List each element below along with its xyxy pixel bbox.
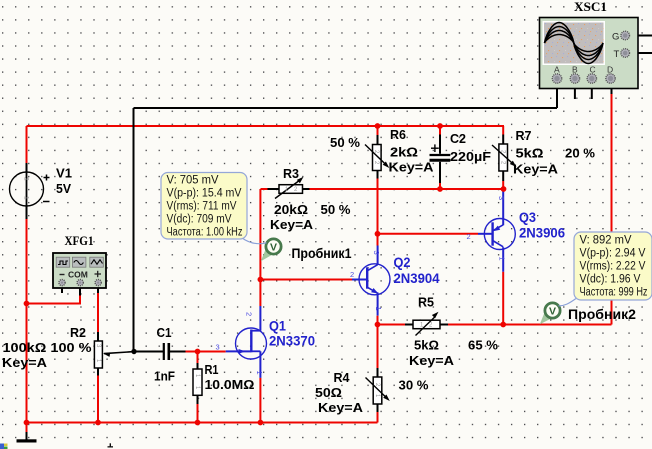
svg-text:V(rms): 2.22 V: V(rms): 2.22 V: [580, 261, 646, 273]
svg-text:R3: R3: [283, 166, 299, 181]
svg-text:V(p-p): 15.4 mV: V(p-p): 15.4 mV: [167, 188, 242, 200]
svg-text:Частота: 1.00 kHz: Частота: 1.00 kHz: [167, 227, 243, 239]
svg-text:V: 892 mV: V: 892 mV: [580, 235, 632, 247]
svg-text:1: 1: [255, 371, 264, 375]
svg-text:D: D: [607, 65, 613, 75]
svg-text:T: T: [614, 49, 620, 60]
svg-text:Key=A: Key=A: [318, 400, 364, 415]
svg-text:XSC1: XSC1: [574, 0, 607, 14]
svg-text:COM: COM: [68, 270, 88, 280]
svg-text:Key=A: Key=A: [2, 355, 48, 370]
svg-text:5kΩ: 5kΩ: [516, 146, 544, 161]
svg-text:V(dc): 1.96 V: V(dc): 1.96 V: [580, 274, 641, 286]
svg-text:3: 3: [216, 343, 220, 352]
svg-text:30 %: 30 %: [399, 378, 429, 393]
svg-text:R4: R4: [334, 370, 351, 385]
svg-text:2: 2: [467, 232, 471, 241]
svg-text:Q1: Q1: [269, 319, 286, 334]
svg-text:65 %: 65 %: [468, 338, 498, 353]
svg-text:Пробник1: Пробник1: [292, 246, 352, 261]
svg-text:Пробник2: Пробник2: [568, 307, 636, 322]
svg-text:3: 3: [372, 251, 381, 255]
svg-text:2: 2: [350, 270, 354, 279]
svg-text:R1: R1: [205, 362, 219, 377]
svg-text:2N3904: 2N3904: [394, 271, 440, 286]
svg-text:2N3906: 2N3906: [519, 226, 565, 241]
svg-text:5V: 5V: [56, 181, 71, 196]
svg-text:Частота: 999 Hz: Частота: 999 Hz: [580, 287, 648, 299]
svg-text:R7: R7: [516, 128, 532, 143]
svg-text:A: A: [554, 65, 560, 75]
svg-text:V: V: [270, 241, 277, 253]
svg-text:100kΩ 100 %: 100kΩ 100 %: [3, 340, 92, 355]
svg-text:20kΩ: 20kΩ: [274, 202, 308, 217]
svg-text:220µF: 220µF: [450, 149, 491, 164]
svg-text:20 %: 20 %: [565, 146, 595, 161]
svg-text:Q3: Q3: [519, 210, 536, 225]
svg-text:C1: C1: [157, 325, 172, 340]
svg-text:2: 2: [23, 177, 30, 181]
svg-text:1: 1: [23, 196, 30, 200]
svg-text:V(rms): 711 mV: V(rms): 711 mV: [167, 201, 237, 213]
svg-text:Key=A: Key=A: [270, 217, 314, 232]
svg-text:2: 2: [245, 312, 254, 316]
svg-text:Q2: Q2: [394, 255, 411, 270]
svg-text:5kΩ: 5kΩ: [414, 338, 439, 353]
svg-text:V(dc): 709 mV: V(dc): 709 mV: [167, 214, 232, 226]
svg-text:50Ω: 50Ω: [315, 385, 342, 400]
svg-text:2N3370: 2N3370: [269, 334, 315, 349]
svg-text:V1: V1: [56, 166, 72, 181]
svg-text:R6: R6: [390, 127, 406, 142]
svg-text:1: 1: [374, 307, 383, 311]
svg-text:1: 1: [498, 257, 507, 261]
svg-text:50 %: 50 %: [321, 202, 351, 217]
svg-text:10.0MΩ: 10.0MΩ: [205, 377, 255, 392]
svg-text:Key=A: Key=A: [409, 353, 455, 368]
svg-text:XFG1: XFG1: [65, 234, 94, 248]
svg-text:R5: R5: [418, 295, 434, 310]
svg-text:G: G: [612, 32, 619, 43]
svg-text:2kΩ: 2kΩ: [390, 145, 418, 160]
svg-text:Key=A: Key=A: [513, 162, 559, 177]
svg-text:R2: R2: [70, 325, 86, 340]
svg-text:C: C: [590, 65, 596, 75]
svg-text:Key=A: Key=A: [389, 160, 435, 175]
svg-text:V: 705 mV: V: 705 mV: [167, 175, 219, 187]
svg-text:50 %: 50 %: [330, 135, 360, 150]
svg-text:B: B: [572, 65, 578, 75]
svg-text:C2: C2: [450, 131, 466, 146]
svg-text:V(p-p): 2.94 V: V(p-p): 2.94 V: [580, 248, 646, 260]
svg-text:V: V: [549, 305, 556, 317]
svg-text:3: 3: [497, 196, 506, 200]
svg-text:1nF: 1nF: [154, 369, 175, 384]
